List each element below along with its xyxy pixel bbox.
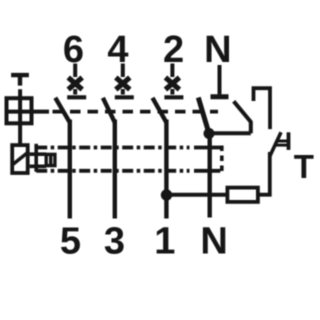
- pole 3 top terminal lead: [170, 64, 174, 78]
- pole 2 switch blade: [103, 98, 115, 123]
- mechanism box vertical axis: [18, 89, 22, 145]
- svg-text:4: 4: [107, 29, 128, 71]
- svg-text:N: N: [204, 29, 231, 71]
- test contact fixed side wire (bracket): [254, 88, 271, 129]
- test button actuator (E symbol): [287, 132, 291, 150]
- test button to resistor wire: [259, 152, 270, 195]
- neutral switch blade: [198, 98, 209, 134]
- pole 1 top terminal lead: [73, 64, 77, 78]
- neutral fixed contact bar: [211, 94, 229, 99]
- toroid core bottom side (dash-dot): [36, 169, 189, 173]
- neutral pole top terminal lead: [218, 65, 222, 94]
- pole 1 fixed contact bar: [67, 95, 86, 99]
- pole 3 terminal to contact link: [170, 89, 174, 95]
- neutral lower conductor: [207, 134, 211, 218]
- svg-text:T: T: [294, 148, 314, 185]
- release to winding wires: [30, 152, 47, 156]
- mechanical linkage (dashed): [53, 110, 219, 114]
- svg-text:1: 1: [154, 221, 175, 263]
- svg-text:3: 3: [104, 221, 125, 263]
- manual actuator T handle: [11, 73, 29, 77]
- test button blade: [270, 132, 281, 156]
- pole 3 lower conductor: [164, 120, 168, 219]
- resistor to pole 3 wire: [167, 193, 228, 197]
- pole 2 plug-in terminal X symbol: [116, 78, 130, 90]
- node: pole 3 test tap junction dot: [161, 189, 172, 200]
- toroid secondary winding: [46, 154, 55, 165]
- pole 1 switch blade: [55, 98, 70, 123]
- toroid core top side (dash-dot): [36, 146, 189, 150]
- pole 3 switch blade: [153, 98, 167, 123]
- toroid core left edge: [34, 144, 38, 172]
- node: neutral load-side junction dot: [204, 128, 215, 139]
- pole 2 terminal to contact link: [121, 89, 125, 95]
- pole 3 fixed contact bar: [164, 95, 183, 99]
- pole 1 plug-in terminal X symbol: [68, 78, 82, 90]
- pole 1 terminal to contact link: [73, 89, 77, 95]
- test contact blade: [234, 101, 252, 122]
- resistor R: [227, 188, 258, 202]
- pole 2 lower conductor: [113, 120, 117, 219]
- residual current release (rect with diagonal): [12, 145, 28, 173]
- pole 2 top terminal lead: [121, 64, 125, 78]
- mechanism box (quadrant square): [7, 98, 32, 123]
- svg-text:5: 5: [60, 221, 81, 263]
- pole 3 plug-in terminal X symbol: [165, 78, 179, 90]
- mechanism box horizontal link: [5, 110, 50, 114]
- pole 1 lower conductor: [68, 120, 72, 219]
- toroid core right edge (dashed): [220, 146, 224, 173]
- test contact blade lead: [249, 122, 253, 134]
- test wire from neutral junction: [209, 131, 251, 135]
- svg-text:N: N: [200, 221, 227, 263]
- pole 2 fixed contact bar: [115, 95, 134, 99]
